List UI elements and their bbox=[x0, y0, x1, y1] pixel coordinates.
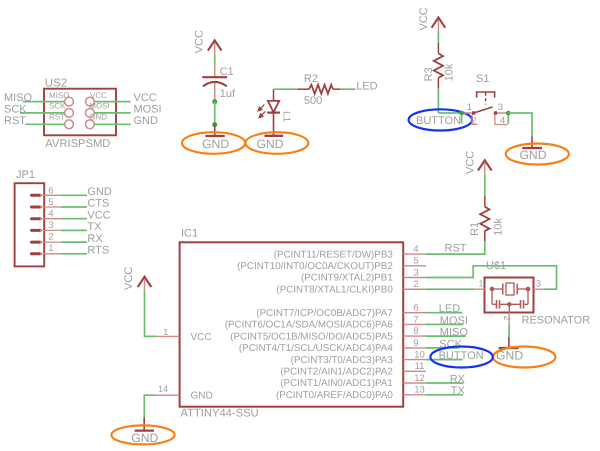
wire MISO left bbox=[20, 102, 131, 125]
svg-text:13: 13 bbox=[414, 385, 425, 396]
U$1 crystal internals bbox=[490, 283, 529, 313]
wire RST left bbox=[25, 123, 64, 125]
svg-text:RST: RST bbox=[4, 115, 26, 127]
svg-text:14: 14 bbox=[158, 384, 168, 394]
JP1 pin stubs bbox=[40, 195, 61, 254]
wire R1 to RST bbox=[426, 241, 485, 254]
svg-text:VCC: VCC bbox=[90, 91, 107, 100]
IC1 left pin stubs bbox=[155, 336, 180, 395]
wire GND right bbox=[94, 123, 130, 125]
svg-text:(PCINT10/INT0/OC0A/CKOUT)PB2: (PCINT10/INT0/OC0A/CKOUT)PB2 bbox=[237, 261, 393, 272]
svg-text:LED: LED bbox=[356, 81, 377, 93]
svg-text:(PCINT4/T1/SCL/USCK/ADC4)PA4: (PCINT4/T1/SCL/USCK/ADC4)PA4 bbox=[239, 343, 393, 354]
svg-text:8: 8 bbox=[413, 326, 418, 337]
svg-text:GND: GND bbox=[87, 186, 112, 198]
svg-text:4: 4 bbox=[413, 244, 418, 255]
svg-text:2: 2 bbox=[471, 115, 476, 126]
svg-text:3: 3 bbox=[48, 219, 53, 230]
ground GND (below C1) bbox=[205, 125, 225, 136]
wire pin7 MOSI bbox=[426, 323, 464, 325]
wire MOSI right bbox=[94, 112, 130, 114]
wire pin10 BUTTON bbox=[426, 359, 463, 361]
JP1 pin numbers bbox=[48, 184, 53, 253]
svg-text:VCC: VCC bbox=[134, 92, 157, 104]
wire pin9 SCK bbox=[426, 347, 459, 349]
svg-text:RX: RX bbox=[87, 233, 103, 245]
svg-text:TX: TX bbox=[87, 221, 102, 233]
annotation blue ellipse (BUTTON at S1) bbox=[409, 109, 472, 130]
annotation blue ellipse (BUTTON at IC1) bbox=[430, 347, 492, 368]
svg-text:VCC: VCC bbox=[87, 209, 110, 221]
svg-text:MISO: MISO bbox=[4, 92, 33, 104]
JP1 net wires bbox=[61, 195, 87, 254]
wire pin3 down to pin4 bbox=[507, 113, 509, 124]
U$1 pin 3 stub bbox=[534, 288, 545, 290]
wire R3 to BUTTON node bbox=[438, 88, 461, 113]
svg-text:GND: GND bbox=[191, 391, 213, 402]
S1 pin numbers bbox=[467, 101, 505, 125]
wire VCC to C1 bbox=[214, 55, 216, 66]
S1 actuator dashed link bbox=[485, 93, 487, 105]
wire VCC to R1 bbox=[484, 174, 486, 196]
svg-text:BUTTON: BUTTON bbox=[439, 350, 484, 362]
S1 pin 3 contact bbox=[494, 111, 497, 114]
wire S1 to GND bbox=[508, 113, 532, 136]
U$1 pin 1 stub bbox=[474, 288, 485, 290]
wire pin3 to resonator pin3 bbox=[426, 266, 557, 289]
svg-text:LED: LED bbox=[439, 303, 460, 315]
ground GND (IC1) bbox=[135, 418, 154, 431]
annotation orange ellipse (IC1 GND) bbox=[111, 425, 174, 444]
svg-text:(PCINT2/AIN1/ADC2)PA2: (PCINT2/AIN1/ADC2)PA2 bbox=[280, 367, 393, 378]
JP1 pin contacts bbox=[32, 195, 41, 254]
svg-text:JP1: JP1 bbox=[16, 169, 35, 181]
svg-text:(PCINT1/AIN0/ADC1)PA1: (PCINT1/AIN0/ADC1)PA1 bbox=[280, 378, 393, 389]
wire SCK left bbox=[20, 112, 64, 114]
svg-text:(PCINT6/OC1A/SDA/MOSI/ADC6)PA6: (PCINT6/OC1A/SDA/MOSI/ADC6)PA6 bbox=[225, 320, 394, 331]
connector US2 AVRISPSMD bbox=[44, 89, 116, 136]
resistor R2 bbox=[298, 85, 341, 94]
svg-text:1: 1 bbox=[48, 242, 53, 253]
svg-text:1uf: 1uf bbox=[220, 88, 236, 100]
svg-text:2: 2 bbox=[48, 231, 53, 242]
svg-text:5: 5 bbox=[48, 196, 53, 207]
svg-text:VCC: VCC bbox=[418, 7, 430, 30]
resistor R3 bbox=[434, 43, 443, 88]
S1 contact lever bbox=[474, 107, 493, 113]
supply VCC (above R3) bbox=[432, 18, 446, 32]
svg-text:(PCINT11/RESET/DW)PB3: (PCINT11/RESET/DW)PB3 bbox=[274, 249, 394, 260]
svg-text:7: 7 bbox=[413, 314, 418, 325]
junction dot (pin 1) bbox=[459, 111, 464, 116]
svg-text:R2: R2 bbox=[304, 73, 318, 85]
svg-text:R3: R3 bbox=[423, 67, 435, 81]
wire VCC to IC1 pin1 bbox=[145, 290, 157, 336]
ground GND (S1) bbox=[522, 136, 542, 148]
capacitor C1 bbox=[202, 66, 227, 101]
svg-text:6: 6 bbox=[413, 303, 418, 314]
svg-text:S1: S1 bbox=[476, 73, 489, 85]
supply VCC (above R1) bbox=[478, 160, 492, 174]
annotation orange ellipse (resonator GND) bbox=[493, 347, 555, 368]
US2 pin names bbox=[49, 91, 110, 122]
LED L1 bbox=[267, 89, 280, 136]
svg-text:RX: RX bbox=[450, 373, 466, 385]
junction dot (pin 3) bbox=[506, 111, 511, 116]
svg-text:RESONATOR: RESONATOR bbox=[522, 315, 591, 327]
svg-text:6: 6 bbox=[48, 184, 53, 195]
svg-text:BUTTON: BUTTON bbox=[416, 115, 461, 127]
svg-text:VCC: VCC bbox=[193, 30, 205, 53]
svg-text:3: 3 bbox=[498, 101, 503, 112]
svg-text:500: 500 bbox=[304, 95, 322, 107]
ground GND (below L1) bbox=[265, 135, 284, 137]
svg-text:ATTINY44-SSU: ATTINY44-SSU bbox=[181, 408, 259, 420]
S1 pin 3 stub bbox=[497, 112, 506, 114]
svg-text:(PCINT5/OC1B/MISO/DO/ADC5)PA5: (PCINT5/OC1B/MISO/DO/ADC5)PA5 bbox=[230, 331, 393, 342]
wire R2 to LED label bbox=[341, 88, 356, 90]
U$1 pin 2 stub bbox=[508, 313, 510, 325]
svg-text:L1: L1 bbox=[280, 111, 291, 123]
S1 pin 2 bracket bbox=[472, 115, 508, 125]
svg-text:1: 1 bbox=[163, 327, 168, 337]
svg-text:(PCINT0/AREF/ADC0)PA0: (PCINT0/AREF/ADC0)PA0 bbox=[276, 390, 393, 401]
svg-text:10k: 10k bbox=[443, 63, 455, 81]
svg-text:C1: C1 bbox=[220, 66, 234, 78]
US2 pads bbox=[65, 97, 95, 129]
svg-text:1: 1 bbox=[467, 101, 472, 112]
annotation orange ellipse (L1 GND) bbox=[246, 132, 309, 154]
svg-text:(PCINT9/XTAL2)PB1: (PCINT9/XTAL2)PB1 bbox=[301, 273, 393, 284]
wire VCC right bbox=[94, 101, 130, 103]
svg-text:GND: GND bbox=[256, 137, 283, 151]
S1 pin 1 stub bbox=[463, 112, 472, 114]
connector JP1 bbox=[15, 183, 45, 266]
svg-text:4: 4 bbox=[48, 207, 53, 218]
wire pin1 down to pin2 bbox=[461, 113, 463, 124]
svg-text:9: 9 bbox=[413, 338, 418, 349]
svg-text:(PCINT8/XTAL1/CLKI)PB0: (PCINT8/XTAL1/CLKI)PB0 bbox=[276, 284, 393, 295]
svg-text:CTS: CTS bbox=[87, 198, 109, 210]
svg-text:AVRISPSMD: AVRISPSMD bbox=[45, 138, 110, 150]
svg-text:GND: GND bbox=[519, 148, 546, 162]
junction dot bbox=[212, 122, 217, 127]
wire C1 to GND bbox=[214, 102, 216, 125]
wire VCC to R3 bbox=[437, 31, 439, 43]
svg-text:TX: TX bbox=[451, 385, 466, 397]
svg-text:2: 2 bbox=[413, 279, 418, 290]
S1 pin 4 bracket bbox=[495, 115, 508, 125]
svg-text:SCK: SCK bbox=[4, 103, 27, 115]
supply VCC (IC1 pin1) bbox=[138, 277, 152, 291]
wire pin2 to resonator pin1 bbox=[426, 288, 474, 290]
wire pin12 RX bbox=[426, 382, 464, 384]
svg-text:3: 3 bbox=[413, 267, 418, 278]
svg-text:MOSI: MOSI bbox=[134, 103, 162, 115]
wire U$1 pin2 to GND bbox=[508, 324, 510, 337]
svg-text:12: 12 bbox=[414, 373, 425, 384]
svg-text:VCC: VCC bbox=[123, 267, 135, 290]
svg-text:IC1: IC1 bbox=[181, 228, 198, 240]
svg-text:GND: GND bbox=[134, 115, 159, 127]
wire pin6 LED bbox=[426, 312, 462, 314]
wire IC1 pin14 to GND bbox=[144, 395, 155, 417]
junction dot bbox=[212, 99, 217, 104]
svg-text:RST: RST bbox=[49, 113, 65, 122]
svg-text:(PCINT3/T0/ADC3)PA3: (PCINT3/T0/ADC3)PA3 bbox=[291, 355, 394, 366]
svg-text:5: 5 bbox=[413, 256, 418, 267]
svg-text:US2: US2 bbox=[45, 78, 67, 90]
wire pin8 MISO bbox=[426, 335, 466, 337]
svg-text:4: 4 bbox=[500, 115, 505, 126]
svg-text:RST: RST bbox=[445, 242, 467, 254]
annotation orange ellipse (S1 GND) bbox=[506, 144, 569, 165]
wire pin13 TX bbox=[426, 394, 463, 396]
IC1 pin names (right column) bbox=[225, 249, 394, 401]
wire L1 to R2 bbox=[274, 88, 298, 90]
LED L1 emission arrows bbox=[258, 105, 265, 118]
svg-text:R1: R1 bbox=[469, 222, 481, 236]
svg-text:1: 1 bbox=[479, 279, 484, 289]
IC1 right pin numbers bbox=[413, 244, 424, 396]
svg-text:GND: GND bbox=[89, 113, 107, 122]
svg-text:MOSI: MOSI bbox=[89, 102, 109, 111]
svg-text:(PCINT7/ICP/OC0B/ADC7)PA7: (PCINT7/ICP/OC0B/ADC7)PA7 bbox=[256, 308, 392, 319]
S1 pin 1 contact bbox=[472, 111, 475, 114]
svg-text:10k: 10k bbox=[492, 218, 504, 236]
resistor R1 bbox=[480, 196, 489, 241]
svg-text:RTS: RTS bbox=[87, 245, 109, 257]
svg-text:GND: GND bbox=[202, 137, 229, 151]
svg-text:VCC: VCC bbox=[464, 151, 476, 174]
svg-text:3: 3 bbox=[536, 279, 541, 289]
svg-text:SCK: SCK bbox=[49, 102, 66, 111]
svg-text:MOSI: MOSI bbox=[440, 315, 468, 327]
svg-text:MISO: MISO bbox=[440, 327, 469, 339]
svg-text:MISO: MISO bbox=[49, 91, 69, 100]
svg-text:2: 2 bbox=[502, 316, 512, 321]
IC1 right pin stubs bbox=[403, 254, 426, 395]
annotation orange ellipse (C1 GND) bbox=[182, 132, 245, 154]
svg-text:VCC: VCC bbox=[191, 332, 212, 343]
supply VCC (above C1) bbox=[208, 40, 222, 54]
svg-text:11: 11 bbox=[415, 361, 425, 372]
svg-text:10: 10 bbox=[414, 350, 425, 361]
ground GND (resonator) bbox=[499, 337, 519, 348]
S1 actuator bracket bbox=[477, 92, 495, 98]
